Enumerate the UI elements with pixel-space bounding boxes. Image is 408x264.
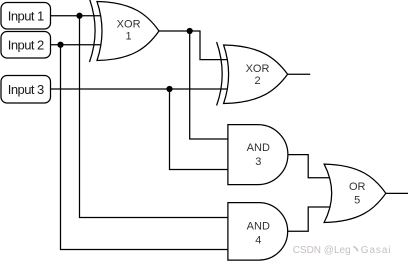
xor gate XOR2 (217, 42, 288, 106)
svg-text:OR: OR (349, 181, 366, 193)
svg-text:Gasai: Gasai (361, 245, 392, 256)
svg-text:1: 1 (126, 30, 132, 42)
watermark CSDN @Leg丶Gasai (293, 245, 392, 256)
xor gate XOR1 (90, 0, 160, 62)
wire Input2 to XOR1 lower input (51, 44, 103, 46)
wire Input3 to XOR2 lower input (51, 88, 230, 90)
and gate AND3 (228, 125, 288, 185)
svg-text:XOR: XOR (117, 18, 141, 30)
wire OR5 output (386, 192, 408, 194)
wire XOR1 output to XOR2 upper input (159, 31, 229, 60)
or gate OR5 (324, 164, 386, 222)
wire Input1 branch to AND4 upper input (80, 16, 228, 218)
junction dot on XOR1 output (187, 28, 193, 34)
svg-text:CSDN @Leg: CSDN @Leg (293, 245, 351, 256)
svg-text:Input 3: Input 3 (8, 82, 44, 97)
wire AND3 output to OR5 upper input (288, 155, 330, 178)
svg-text:Input 1: Input 1 (8, 8, 44, 23)
wire AND4 output to OR5 lower input (288, 207, 331, 231)
svg-text:2: 2 (254, 75, 260, 87)
svg-text:XOR: XOR (246, 63, 270, 75)
svg-text:5: 5 (354, 194, 360, 206)
wire Input2 branch to AND4 lower input (61, 45, 228, 250)
input box Input 3 (1, 76, 51, 104)
wire XOR2 output stub (288, 73, 311, 75)
input box Input 1 (1, 3, 51, 30)
junction dot on Input2 wire (57, 42, 63, 48)
svg-text:Input 2: Input 2 (8, 37, 44, 52)
and gate AND4 (228, 203, 288, 261)
junction dot on Input1 wire (76, 13, 82, 19)
wire Input3 branch to AND3 lower input (170, 89, 228, 170)
input box Input 2 (1, 32, 51, 59)
svg-text:AND: AND (247, 142, 270, 154)
junction dot on Input3 wire (166, 86, 172, 92)
wire Input1 to XOR1 upper input (51, 15, 102, 17)
svg-text:3: 3 (255, 156, 261, 168)
wire XOR1 output branch to AND3 upper input (190, 31, 228, 139)
svg-text:4: 4 (255, 235, 261, 247)
svg-text:AND: AND (247, 221, 270, 233)
